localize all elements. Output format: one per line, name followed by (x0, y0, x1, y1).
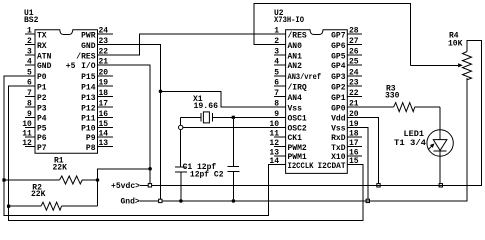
OSC2 node circle (179, 125, 183, 129)
svg-text:10: 10 (22, 120, 32, 129)
U2 right pin names (318, 31, 346, 171)
svg-text:19: 19 (99, 79, 109, 88)
svg-text:4: 4 (27, 57, 32, 66)
svg-text:P10: P10 (81, 125, 96, 134)
svg-text:10K: 10K (448, 39, 463, 48)
wire U1.P0 pin5 to bottom rail to U2.I2CCLK pin14 (4, 76, 286, 216)
svg-text:GP5: GP5 (331, 52, 346, 61)
svg-text:Vss: Vss (288, 104, 303, 113)
svg-text:GND: GND (81, 42, 96, 51)
wire pull-up feed to R1/R2 (98, 169, 151, 206)
svg-text:18: 18 (349, 130, 359, 139)
junction C1 on Gnd rail (179, 199, 183, 203)
svg-text:20: 20 (99, 68, 109, 77)
LED LED1 (427, 130, 453, 156)
svg-text:OSC2: OSC2 (288, 125, 307, 134)
svg-text:12: 12 (269, 139, 279, 148)
svg-text:GP0: GP0 (331, 104, 346, 113)
wire AN0 net from top rail to U2.AN0 pin2 (254, 4, 411, 66)
svg-text:AN4: AN4 (288, 94, 303, 103)
svg-text:+5vdc>: +5vdc> (111, 182, 140, 191)
U2 left pin numbers 1-14 (269, 27, 279, 167)
svg-text:24: 24 (99, 27, 109, 36)
svg-text:P9: P9 (86, 134, 96, 143)
svg-text:5: 5 (274, 68, 279, 77)
svg-text:P14: P14 (81, 83, 96, 92)
svg-text:26: 26 (349, 48, 359, 57)
crystal X1 (181, 112, 286, 123)
svg-text:P0: P0 (37, 73, 47, 82)
svg-text:27: 27 (349, 37, 359, 46)
wire U1.GND pin23 down to Gnd connector (98, 45, 161, 200)
wire OSC2 node to U2.OSC2 pin10 (183, 126, 286, 128)
wire U1.P1 pin6 to bottom rail to U2.I2CDAT pin15 (9, 86, 363, 220)
junction on OSC1 line (C2 branch) (232, 116, 235, 119)
wire OSC1 junction down to C2 (232, 119, 234, 167)
svg-text:4: 4 (274, 57, 279, 66)
svg-text:AN3/vref: AN3/vref (288, 73, 322, 82)
svg-text:I2CCLK: I2CCLK (288, 162, 314, 171)
svg-text:AN0: AN0 (288, 42, 303, 51)
svg-text:17: 17 (99, 100, 109, 109)
svg-text:PWM2: PWM2 (288, 144, 307, 153)
svg-text:P7: P7 (37, 144, 47, 153)
C1/C2 value labels (183, 163, 224, 179)
svg-text:GP6: GP6 (331, 42, 346, 51)
IC U1 BS2 (DIP-24) (22, 27, 113, 154)
svg-text:PWR: PWR (81, 31, 96, 40)
svg-text:LED1: LED1 (404, 130, 425, 139)
wire U1./RES pin22 to U2./RES pin1 (98, 34, 286, 55)
svg-text:7: 7 (27, 89, 32, 98)
svg-text:P15: P15 (81, 73, 96, 82)
svg-text:BS2: BS2 (24, 16, 39, 25)
svg-text:15: 15 (99, 120, 109, 129)
svg-text:GP1: GP1 (331, 94, 346, 103)
svg-text:8: 8 (27, 100, 32, 109)
capacitor C1 (175, 167, 187, 199)
svg-text:GP2: GP2 (331, 83, 346, 92)
svg-text:CK1: CK1 (288, 134, 303, 143)
svg-text:12pf C2: 12pf C2 (190, 170, 224, 179)
svg-text:TX: TX (37, 31, 47, 40)
U2 right pin numbers 28-15 (349, 27, 359, 167)
svg-text:X10: X10 (331, 153, 346, 162)
Gnd rail (162, 78, 467, 201)
svg-text:P8: P8 (86, 144, 96, 153)
svg-text:ATN: ATN (37, 52, 52, 61)
svg-text:22: 22 (349, 89, 359, 98)
svg-text:P2: P2 (37, 94, 47, 103)
terminal square LED cathode on +5 rail (439, 184, 442, 187)
U1 left pin numbers 1-12 (22, 27, 32, 148)
svg-text:P5: P5 (37, 125, 47, 134)
svg-text:X73H-IO: X73H-IO (274, 16, 304, 25)
svg-text:14: 14 (99, 130, 109, 139)
potentiometer R4 (411, 52, 472, 80)
wire LED1 cathode down to +5 rail (439, 156, 441, 183)
svg-text:2: 2 (27, 37, 32, 46)
+5 rail (152, 40, 482, 185)
svg-text:P11: P11 (81, 115, 96, 124)
svg-text:16: 16 (99, 110, 109, 119)
svg-text:TxD: TxD (331, 144, 346, 153)
svg-text:PWM1: PWM1 (288, 153, 307, 162)
junction C2 on Gnd rail (232, 199, 236, 203)
U1 left pin names (37, 31, 52, 152)
svg-text:25: 25 (349, 57, 359, 66)
resistor R3 (362, 103, 440, 112)
svg-text:24: 24 (349, 68, 359, 77)
capacitor C2 (227, 167, 239, 200)
svg-text:7: 7 (274, 89, 279, 98)
svg-text:11: 11 (269, 130, 279, 139)
svg-text:11: 11 (22, 130, 32, 139)
svg-text:P3: P3 (37, 104, 47, 113)
svg-text:/IRQ: /IRQ (288, 83, 307, 92)
wire U1.+5I/O pin21 down to +5 rail (98, 65, 151, 184)
svg-text:Gnd>: Gnd> (121, 198, 140, 207)
svg-text:16: 16 (349, 149, 359, 158)
U1 right pin names (66, 31, 96, 152)
junction on GND line (Vss branch) (159, 90, 163, 94)
junction R1 right end on pull-up vertical (96, 178, 100, 182)
svg-text:12: 12 (22, 139, 32, 148)
resistor R2 (9, 202, 98, 210)
svg-text:RxD: RxD (331, 134, 346, 143)
svg-text:3: 3 (27, 48, 32, 57)
svg-text:GND: GND (37, 62, 52, 71)
svg-text:/RES: /RES (288, 31, 307, 40)
svg-text:GP7: GP7 (331, 31, 346, 40)
Gnd connector (121, 198, 163, 207)
svg-text:13: 13 (269, 149, 279, 158)
svg-text:P6: P6 (37, 134, 47, 143)
terminal square U1+5 feed on +5 rail (377, 184, 380, 187)
svg-text:GP4: GP4 (331, 62, 346, 71)
wire R3 to LED1 anode (439, 107, 441, 130)
IC U2 X73H-IO (DIP-28) (269, 27, 362, 174)
svg-text:+5: +5 (66, 62, 76, 71)
junction +5 vertical / pull-up feed (148, 167, 152, 171)
svg-text:RX: RX (37, 42, 47, 51)
wire GND junction to U2.Vss pin8 (161, 91, 286, 107)
svg-text:23: 23 (349, 79, 359, 88)
svg-text:I/O: I/O (81, 62, 96, 71)
svg-text:22K: 22K (53, 164, 68, 173)
svg-text:22K: 22K (31, 190, 46, 199)
junction R2 left on P1 line (7, 205, 10, 208)
junction R1 left on P0 line (2, 178, 5, 181)
svg-text:/RES: /RES (76, 52, 95, 61)
+5vdc connector (111, 182, 152, 191)
svg-text:OSC1: OSC1 (288, 115, 307, 124)
svg-text:19.66: 19.66 (194, 102, 219, 111)
svg-text:13: 13 (99, 139, 109, 148)
U1 right pin numbers 24-13 (99, 27, 109, 148)
svg-text:330: 330 (385, 92, 400, 101)
U2 left pin names (288, 31, 322, 171)
svg-text:Vss: Vss (331, 125, 346, 134)
svg-text:P4: P4 (37, 115, 47, 124)
svg-text:AN2: AN2 (288, 62, 303, 71)
svg-text:6: 6 (274, 79, 279, 88)
svg-text:18: 18 (99, 89, 109, 98)
resistor R1 (4, 176, 98, 184)
wire OSC2 node down to C1 (180, 130, 182, 167)
wire U2.Vdd pin20 down to +5 rail (347, 117, 378, 183)
svg-text:P12: P12 (81, 104, 96, 113)
wire U2.Vss pin19 down to Gnd rail (347, 127, 368, 199)
svg-text:1: 1 (27, 27, 32, 36)
svg-text:9: 9 (27, 110, 32, 119)
svg-text:3: 3 (274, 48, 279, 57)
terminal square Vss on Gnd rail (366, 199, 369, 202)
svg-text:GP3: GP3 (331, 73, 346, 82)
svg-text:P13: P13 (81, 94, 96, 103)
svg-text:Vdd: Vdd (331, 115, 346, 124)
svg-text:28: 28 (349, 27, 359, 36)
svg-text:T1 3/4: T1 3/4 (394, 139, 426, 148)
svg-text:AN1: AN1 (288, 52, 303, 61)
svg-text:17: 17 (349, 139, 359, 148)
svg-text:I2CDAT: I2CDAT (318, 162, 346, 171)
svg-text:P1: P1 (37, 83, 47, 92)
svg-text:21: 21 (349, 100, 359, 109)
wire X1 left lead down to OSC2 node circle (180, 117, 182, 125)
